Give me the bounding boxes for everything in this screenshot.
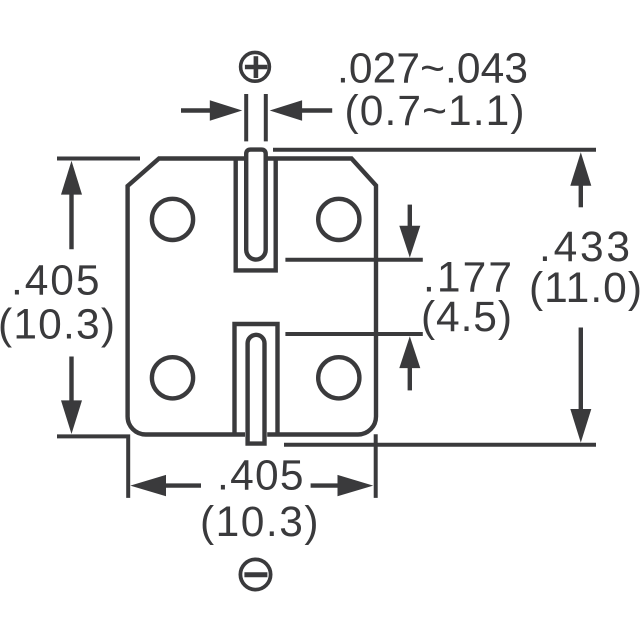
svg-text:.433: .433: [539, 224, 630, 271]
svg-text:(4.5): (4.5): [421, 294, 512, 341]
svg-text:(0.7~1.1): (0.7~1.1): [345, 88, 525, 135]
svg-text:.027~.043: .027~.043: [337, 46, 528, 93]
svg-text:(10.3): (10.3): [0, 302, 115, 349]
svg-text:(11.0): (11.0): [529, 265, 640, 312]
svg-text:.405: .405: [217, 453, 304, 500]
svg-text:(10.3): (10.3): [200, 499, 319, 546]
svg-text:.405: .405: [11, 258, 100, 305]
